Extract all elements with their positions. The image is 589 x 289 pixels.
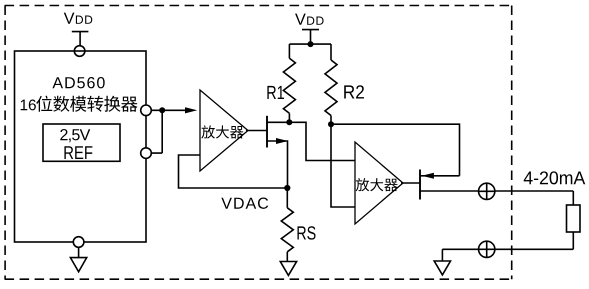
resistor RS: [286, 188, 288, 208]
power VDD (middle) symbol: [302, 30, 319, 44]
arrow on Q2 emitter: [422, 173, 434, 179]
dashed enclosure border: [5, 5, 512, 7]
transistor Q2 emitter wire (to R2 rail): [420, 175, 460, 177]
op-amp U2 (放大器): [355, 142, 403, 224]
ground below RS: [280, 262, 296, 276]
DAC block AD560 box: [15, 51, 147, 242]
terminal circle on box top (VDD pin): [74, 46, 85, 57]
resistor R1: [288, 44, 290, 58]
transistor Q1 base bar: [266, 116, 268, 148]
ground below AD560: [78, 247, 80, 257]
wire amp1 output: [246, 130, 267, 132]
wire amp1 feedback from VDAC node: [179, 155, 288, 188]
power VDD (left) label: [64, 13, 75, 24]
load resistor (right): [572, 191, 574, 205]
pin SENSE circle: [141, 148, 152, 159]
terminal circle on box bottom (GND pin): [73, 237, 84, 248]
pin VOUT circle: [141, 105, 152, 116]
node VDAC junction: [284, 185, 290, 191]
label R2: [344, 85, 364, 98]
label AD560: [52, 77, 104, 88]
arrow on Q1 emitter: [276, 138, 288, 144]
node junction R1 bottom: [286, 119, 292, 125]
wire R2 node to amp2 lower input: [331, 124, 355, 207]
label RS: [297, 226, 315, 239]
node junction VDD rail: [308, 41, 314, 47]
label 位数模转换器: [36, 96, 52, 112]
transistor Q1 collector wire: [267, 121, 289, 123]
label 2,5V: [60, 129, 90, 142]
power VDD (left) symbol: [72, 32, 89, 46]
node junction R2 bottom: [328, 121, 334, 127]
op-amp U1 (放大器): [200, 90, 248, 171]
label REF: [64, 146, 92, 159]
wire amp2 output: [401, 182, 420, 184]
wire VDD rail: [289, 43, 331, 45]
arrow into amp1 input: [185, 107, 197, 113]
transistor Q2 collector wire to output: [420, 190, 573, 192]
wire sense link: [151, 110, 162, 153]
ground right: [441, 249, 443, 261]
reference box 2,5V REF: [43, 124, 120, 161]
wire return bottom: [442, 248, 573, 250]
transistor Q2 base bar: [419, 170, 421, 200]
label R1: [267, 86, 284, 99]
wire R1 node to amp2 upper input: [289, 122, 355, 160]
node junction at VOUT: [159, 107, 165, 113]
terminal + output (top): [479, 183, 495, 199]
power VDD (middle) label: [295, 14, 306, 25]
wire R2 node to Q2 emitter: [331, 124, 460, 176]
transistor Q1 emitter wire: [267, 141, 288, 188]
terminal + return (bottom): [479, 241, 495, 257]
wire VOUT to amp1: [151, 109, 186, 111]
label 4-20mA: [524, 171, 586, 184]
label 16 (digits of DAC line): [21, 100, 36, 111]
label VDAC: [221, 198, 268, 209]
resistor R2: [330, 44, 332, 60]
